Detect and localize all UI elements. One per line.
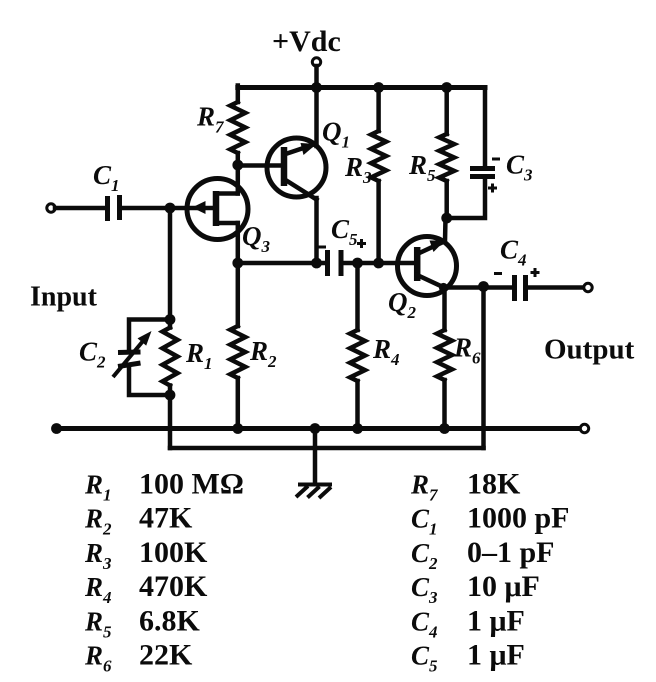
node A: R7 / Q1 base / Q3 drain junction bbox=[232, 160, 243, 171]
junction: R2 bottom bbox=[232, 423, 243, 434]
wire: Q3 source down to C5 wire bbox=[236, 223, 241, 263]
wire: C5 to Q2 base bbox=[343, 261, 417, 266]
junction: R5 / C3 / Q2 collector bbox=[441, 213, 452, 224]
capacitor C5 bbox=[318, 239, 366, 276]
junction: R6 bottom bbox=[439, 423, 450, 434]
svg-text:0–1 pF: 0–1 pF bbox=[467, 536, 555, 569]
wire: R1 bottom down to feedback line (crosses ground rail) bbox=[168, 395, 173, 448]
capacitor C3 bbox=[470, 159, 500, 193]
wire: node A to Q1 base bbox=[238, 163, 284, 168]
wire: ground stem bbox=[313, 429, 318, 485]
junction: R1/C2 top bbox=[165, 314, 176, 325]
junction: Q2 emitter node bbox=[439, 283, 448, 292]
value label: R2 = 47K bbox=[84, 502, 193, 539]
transistor Q2 bbox=[398, 237, 457, 296]
svg-text:Input: Input bbox=[30, 282, 98, 313]
value label: C4 = 1 μF bbox=[411, 604, 525, 641]
svg-text:1000 pF: 1000 pF bbox=[467, 502, 570, 535]
junction: rail / R5 top bbox=[441, 82, 452, 93]
junction: R4 top bbox=[352, 258, 363, 269]
resistor R5 bbox=[444, 88, 449, 135]
junction: R4 bottom bbox=[352, 423, 363, 434]
resistor R3 bbox=[376, 88, 381, 132]
svg-text:47K: 47K bbox=[139, 502, 193, 535]
transistor Q3 (JFET) bbox=[187, 179, 248, 240]
wire: C2 branch top bbox=[129, 320, 170, 352]
resistor R2 bbox=[236, 263, 241, 326]
value label: C1 = 1000 pF bbox=[411, 502, 570, 539]
resistor R6 bbox=[442, 288, 447, 331]
junction: R1/C2 bottom bbox=[165, 390, 176, 401]
svg-text:100K: 100K bbox=[139, 536, 208, 569]
resistor R4 bbox=[355, 263, 360, 330]
wire: Q2 collector up to R5/C3 node bbox=[443, 218, 448, 242]
resistor R7 bbox=[236, 86, 241, 103]
wire: Q2 emitter node to C4 bbox=[444, 285, 513, 290]
svg-text:1 μF: 1 μF bbox=[467, 639, 525, 672]
wire: feedback vertical from emitter node bbox=[481, 287, 486, 449]
ground symbol bbox=[296, 485, 332, 499]
+Vdc terminal bbox=[312, 58, 320, 66]
wire: Q1 collector to +Vdc rail bbox=[314, 88, 319, 147]
value label: R5 = 6.8K bbox=[84, 604, 201, 641]
wire: gate node down to R1/C2 bbox=[168, 208, 173, 320]
output terminal (bottom) bbox=[580, 424, 588, 432]
input terminal bbox=[47, 204, 55, 212]
wire: C4 to output terminal bbox=[528, 285, 585, 290]
svg-text:1 μF: 1 μF bbox=[467, 604, 525, 637]
svg-text:6.8K: 6.8K bbox=[139, 604, 201, 637]
wire: feedback horizontal to R1 bottom bbox=[170, 446, 484, 451]
junction: R3 bottom bbox=[373, 258, 384, 269]
wire: bottom ground rail bbox=[57, 426, 582, 431]
svg-text:18K: 18K bbox=[467, 468, 521, 501]
junction: ground stem bbox=[310, 423, 321, 434]
value label: C5 = 1 μF bbox=[411, 639, 525, 676]
wire: rail corner down to C3 bbox=[483, 88, 485, 167]
junction: feedback tap bbox=[478, 281, 489, 292]
junction: Q1 emitter / C5 wire bbox=[311, 258, 322, 269]
value label: R3 = 100K bbox=[84, 536, 208, 573]
svg-text:10 μF: 10 μF bbox=[467, 570, 540, 603]
wire: +Vdc stem bbox=[314, 66, 319, 88]
junction: Q3 source / R2 / C5 wire bbox=[232, 258, 243, 269]
svg-text:+Vdc: +Vdc bbox=[272, 25, 341, 58]
capacitor C1 bbox=[108, 195, 120, 221]
junction: Vdc / rail / Q1 collector bbox=[311, 82, 322, 93]
wire: C2 branch bottom bbox=[129, 368, 170, 395]
resistor R1 bbox=[168, 320, 173, 328]
capacitor C4 bbox=[494, 268, 540, 301]
junction: gate wire / R1-C2 branch bbox=[165, 203, 176, 214]
value label: R6 = 22K bbox=[84, 639, 193, 676]
transistor Q1 bbox=[267, 138, 326, 200]
capacitor C2 (variable) bbox=[113, 331, 152, 377]
value label: C2 = 0–1 pF bbox=[411, 536, 555, 573]
value label: R7 = 18K bbox=[410, 468, 521, 505]
wire: Q1 emitter down to C5 node bbox=[314, 198, 319, 263]
svg-text:470K: 470K bbox=[139, 570, 208, 603]
svg-text:100 MΩ: 100 MΩ bbox=[139, 468, 244, 501]
wire: C3 bottom to R5 bottom node bbox=[447, 179, 485, 219]
junction: rail / R3 top bbox=[373, 82, 384, 93]
svg-text:Output: Output bbox=[544, 334, 635, 366]
wire: input terminal to C1 bbox=[55, 206, 106, 211]
value label: R4 = 470K bbox=[84, 570, 208, 607]
output terminal (top) bbox=[584, 283, 592, 291]
value label: C3 = 10 μF bbox=[411, 570, 540, 607]
svg-text:22K: 22K bbox=[139, 639, 193, 672]
node: rail left end bbox=[51, 423, 62, 434]
wire: Q3 drain to node A bbox=[236, 165, 241, 194]
wire: C1 to Q3 gate bbox=[122, 206, 217, 211]
value label: R1 = 100 MΩ bbox=[84, 468, 244, 505]
wire: Q3 source node to C5 bbox=[238, 261, 325, 266]
wire: top power rail bbox=[238, 85, 485, 90]
